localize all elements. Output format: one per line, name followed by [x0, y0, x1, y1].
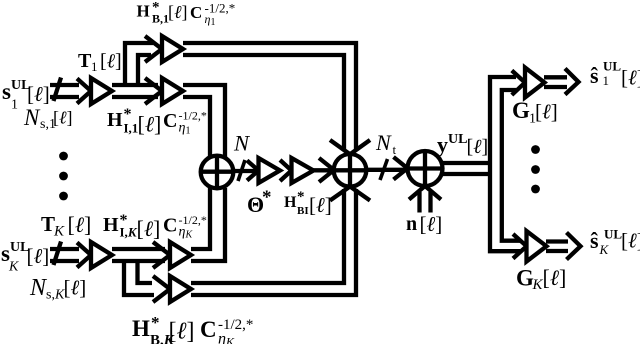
wire input s1 bus pair [50, 85, 79, 97]
label GK gain [516, 265, 566, 293]
wire branch down to BK inner [138, 259, 153, 283]
label T1 gain [78, 50, 122, 74]
arrowhead into adder3 left [394, 157, 408, 180]
wire I1 output to adder1 top outer [183, 85, 225, 157]
svg-text:T: T [41, 212, 55, 236]
svg-text:N: N [233, 131, 251, 156]
label sK UL input [1, 240, 49, 275]
svg-text:[ℓ]: [ℓ] [621, 66, 640, 90]
ellipsis right [531, 145, 540, 193]
wire IK output to adder1 bottom outer [191, 188, 225, 261]
label G1 gain [512, 98, 558, 127]
label H_B,K coefficient [132, 313, 253, 349]
arrowhead into adder2 top [330, 140, 370, 154]
wire G1 output pair [544, 77, 567, 87]
svg-text:[ℓ]: [ℓ] [309, 193, 332, 217]
wire adder1 to Theta [233, 169, 257, 173]
label H_BI coefficient [284, 189, 332, 217]
label s1hat UL output [590, 59, 640, 90]
arrowhead into adder2 left [319, 158, 334, 182]
svg-text:[ℓ]: [ℓ] [100, 51, 122, 73]
svg-text:[ℓ]: [ℓ] [27, 244, 50, 268]
svg-text:I,1: I,1 [124, 121, 139, 136]
svg-text:G: G [516, 266, 534, 291]
svg-text:n: n [406, 213, 417, 235]
wire B1 output to adder2 top outer [183, 43, 356, 151]
adder A1 plus [201, 156, 234, 189]
wire branch down to BK outer [124, 259, 154, 295]
wire noise n input pair [420, 192, 431, 213]
svg-text:UL: UL [448, 132, 467, 147]
arrowhead into BK [153, 276, 170, 302]
svg-text:C: C [190, 3, 202, 22]
arrowhead into Theta [247, 161, 259, 181]
bus slash N_s,K [54, 242, 62, 266]
svg-text:N: N [375, 130, 392, 155]
amplifier T1 [91, 78, 112, 104]
svg-text:[ℓ]: [ℓ] [168, 2, 188, 22]
arrowhead into HBI [280, 160, 292, 181]
wire T1 to I1 pair [112, 85, 158, 97]
svg-text:C: C [163, 215, 177, 237]
label H_I,K coefficient [103, 212, 207, 241]
svg-text:*: * [151, 313, 160, 332]
arrowhead into TK [77, 243, 91, 268]
svg-text:H: H [137, 2, 150, 21]
svg-text:H: H [284, 194, 297, 211]
arrowhead output sKhat [567, 233, 581, 260]
svg-text:[ℓ]: [ℓ] [621, 229, 640, 253]
svg-text:[ℓ]: [ℓ] [53, 108, 73, 128]
svg-text:H: H [103, 214, 119, 236]
wire input sK bus pair [50, 249, 79, 261]
wire BK output to adder2 bottom outer [191, 189, 356, 295]
label Theta star [247, 187, 272, 217]
label n noise [406, 212, 442, 236]
svg-text:[ℓ]: [ℓ] [420, 212, 443, 236]
label N_s,1 bus width [23, 105, 73, 132]
svg-text:ŝ: ŝ [590, 228, 599, 253]
svg-text:C: C [200, 317, 217, 342]
svg-text:C: C [163, 110, 177, 132]
svg-text:N: N [23, 105, 41, 130]
wire branch up to B1 outer [125, 43, 153, 87]
arrowhead into IK [153, 242, 170, 268]
wire splitter outer [490, 77, 520, 251]
svg-text:K: K [599, 242, 610, 257]
svg-text:H: H [107, 109, 123, 131]
label H_B,1 coefficient [137, 0, 236, 28]
svg-text:[ℓ]: [ℓ] [68, 212, 92, 237]
label TK gain [41, 212, 91, 240]
arrowhead into GK [513, 234, 527, 259]
adder A3 plus [408, 151, 443, 186]
svg-text:s,K: s,K [46, 288, 65, 303]
svg-text:[ℓ]: [ℓ] [467, 136, 489, 158]
wire branch up to B1 inner [138, 55, 151, 87]
wire adder2 to adder3 [366, 168, 405, 172]
label H_I,1 coefficient [107, 106, 207, 137]
bus slash N_t [380, 159, 388, 180]
arrowhead into G1 [512, 71, 525, 96]
svg-text:[ℓ]: [ℓ] [543, 265, 567, 290]
adder A1 circle [201, 156, 234, 189]
label N_t bus width [375, 130, 397, 157]
amplifier HBI [292, 158, 314, 183]
svg-text:[ℓ]: [ℓ] [137, 216, 161, 241]
amplifier GK [527, 231, 547, 262]
amplifier B1 (H_B,1) [162, 36, 183, 62]
svg-text:1: 1 [603, 73, 610, 88]
svg-text:B,1: B,1 [152, 12, 169, 26]
arrowhead into I1 [145, 78, 162, 104]
amplifier TK [91, 242, 112, 268]
svg-text:s: s [2, 79, 11, 104]
svg-text:UL: UL [604, 227, 622, 242]
wire splitter inner [502, 90, 520, 241]
label N_s,K bus width [29, 275, 86, 303]
label y UL received [437, 132, 488, 158]
adder A2 circle [334, 154, 367, 187]
svg-text:UL: UL [603, 59, 621, 74]
wire TK to IK pair [112, 249, 165, 261]
svg-text:[ℓ]: [ℓ] [27, 82, 50, 106]
wire HBI to adder2 [314, 168, 333, 172]
bus slash N_s,1 [54, 78, 62, 102]
svg-text:[ℓ]: [ℓ] [535, 100, 558, 124]
wire adder3 output pair [442, 163, 492, 174]
wire BK output to adder2 bottom inner [191, 189, 344, 283]
arrowhead output s1hat [565, 69, 579, 95]
wire I1 output to adder1 top inner [183, 97, 210, 157]
svg-text:*: * [262, 187, 272, 208]
amplifier IK (H_I,K) [170, 242, 191, 268]
svg-text:[ℓ]: [ℓ] [64, 276, 87, 300]
svg-text:K: K [8, 260, 19, 275]
svg-text:I,K: I,K [120, 225, 138, 240]
amplifier Theta [259, 158, 281, 183]
arrowhead noise into adder3 bottom [409, 186, 441, 200]
svg-text:G: G [512, 98, 530, 123]
wire B1 output to adder2 top inner [183, 55, 344, 151]
svg-text:t: t [393, 142, 397, 157]
amplifier G1 [525, 68, 545, 98]
arrowhead into T1 [77, 79, 91, 104]
svg-text:1: 1 [11, 98, 18, 113]
label s1 UL input [2, 78, 50, 113]
svg-text:T: T [78, 50, 92, 72]
svg-text:1: 1 [91, 59, 98, 74]
wire GK output pair [546, 242, 568, 252]
adder A2 plus [334, 154, 367, 187]
svg-text:*: * [297, 189, 305, 205]
svg-text:BI: BI [297, 205, 309, 217]
adder A3 circle [408, 151, 443, 186]
svg-text:y: y [437, 132, 448, 157]
wire IK output to adder1 bottom inner [191, 188, 210, 249]
svg-text:[ℓ]: [ℓ] [138, 112, 162, 137]
ellipsis left [59, 152, 68, 201]
amplifier I1 (H_I,1) [162, 78, 183, 104]
svg-text:K: K [53, 224, 65, 240]
arrowhead into adder2 bottom [330, 187, 370, 201]
bus slash N [238, 160, 245, 181]
svg-text:H: H [132, 316, 150, 341]
svg-text:[ℓ]: [ℓ] [169, 319, 195, 345]
arrowhead into B1 [145, 36, 162, 62]
svg-text:ŝ: ŝ [590, 63, 599, 88]
label sKhat UL output [590, 227, 640, 258]
amplifier BK (H_B,K) [170, 276, 191, 302]
